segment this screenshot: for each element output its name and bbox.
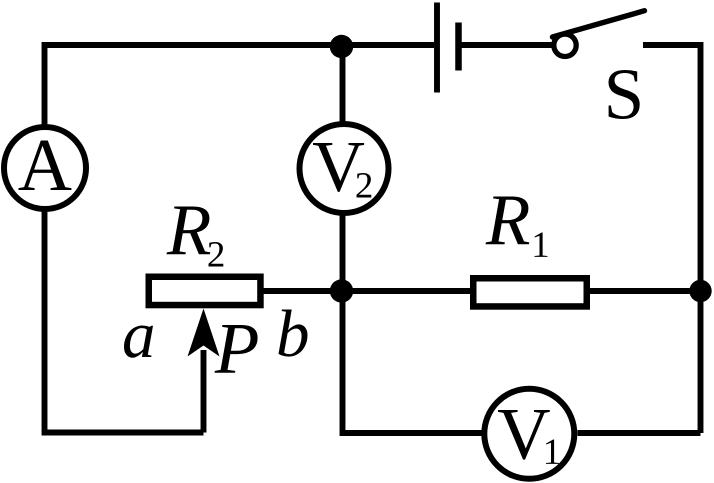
battery long electrode (positive)	[434, 3, 440, 93]
label b	[279, 310, 308, 357]
voltmeter V2	[300, 124, 389, 213]
rheostat R2 body	[149, 277, 261, 305]
resistor R1 body	[473, 278, 587, 306]
label R1	[486, 197, 530, 245]
label a	[124, 326, 153, 358]
wire battery to switch	[461, 42, 553, 48]
wire V1 left to center-bottom corner up through node B to V2	[343, 216, 482, 434]
wiper arrow shaft P	[201, 350, 207, 433]
node right junction dot	[689, 280, 711, 302]
node B junction dot (center)	[330, 279, 353, 302]
ammeter A	[4, 127, 86, 209]
switch S pivot circle	[554, 34, 576, 56]
wire bottom-right (V1 right to right vertical)	[578, 430, 701, 436]
battery short electrode (negative)	[455, 23, 462, 71]
wire top-left run (left corner up to battery)	[45, 45, 435, 128]
wiper arrowhead	[188, 309, 220, 357]
voltmeter V1	[484, 389, 574, 479]
wire left vertical lower + bottom-left run	[45, 208, 204, 433]
wire top-right corner + right vertical	[643, 45, 701, 433]
wire rheostat right terminal to node B	[261, 288, 473, 294]
label P	[215, 325, 258, 373]
switch S lever arm	[553, 11, 645, 37]
label S	[609, 70, 640, 119]
label R2	[167, 207, 211, 255]
wire V2 top to node at top wire	[340, 45, 346, 123]
node top junction dot	[330, 35, 353, 58]
wire R1 right to right node	[588, 288, 698, 294]
